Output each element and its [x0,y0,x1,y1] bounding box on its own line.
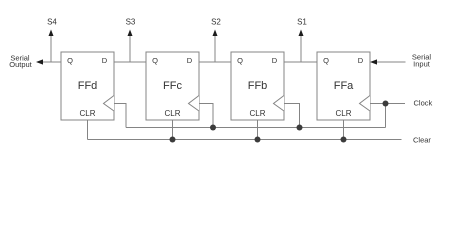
svg-text:Q: Q [152,56,158,65]
svg-text:FFb: FFb [248,80,268,92]
junction clock at FFa [383,101,389,107]
svg-text:D: D [272,56,278,65]
svg-text:S1: S1 [297,17,307,26]
junction clear bus FFc [170,137,176,143]
junction clock bus FFb [297,125,303,131]
svg-text:Output: Output [9,60,32,69]
svg-text:Input: Input [413,59,431,68]
wire serial output from Q of FFd [42,61,61,63]
wire CLR pin FFb [257,120,259,140]
node S3 arrowhead [128,30,133,37]
flip-flop FFc [146,52,199,120]
node S3 tap wire [129,35,131,62]
wire clock stub FFc [199,104,213,128]
wire clear bus [88,139,402,141]
svg-text:Q: Q [323,56,329,65]
svg-text:CLR: CLR [249,109,265,118]
svg-text:FFc: FFc [163,80,182,92]
svg-text:S3: S3 [126,17,136,26]
svg-text:Clock: Clock [414,99,433,108]
wire serial input to D(FFa) [376,61,406,63]
svg-text:CLR: CLR [335,109,351,118]
clock input triangle FFa [360,96,371,112]
svg-text:FFd: FFd [78,80,98,92]
svg-text:D: D [187,56,193,65]
wire D(FFc) to Q(FFb) [199,61,231,63]
clock input triangle FFd [104,96,115,112]
junction clear bus FFa [341,137,347,143]
svg-text:S2: S2 [211,17,221,26]
flip-flop FFa [317,52,370,120]
wire clock bus [126,127,386,129]
svg-text:D: D [102,56,108,65]
wire clock stub FFd [114,104,126,128]
svg-text:Q: Q [67,56,73,65]
label Serial Input [412,52,432,68]
junction clock bus FFc [210,125,216,131]
wire clock lead [386,103,406,105]
label Serial Output [9,53,32,69]
svg-text:FFa: FFa [334,80,354,92]
flip-flop FFd [61,52,114,120]
wire clock stub FFa [370,104,386,128]
node S4 arrowhead [49,30,54,37]
junction clear bus FFb [255,137,261,143]
clock input triangle FFb [274,96,285,112]
serial input arrowhead [370,59,377,64]
svg-text:S4: S4 [47,17,57,26]
wire CLR pin FFa [343,120,345,140]
wire CLR pin FFd [87,120,89,140]
wire clock stub FFb [284,104,300,128]
svg-text:Q: Q [237,56,243,65]
wire D(FFb) to Q(FFa) [284,61,317,63]
node S1 arrowhead [299,30,304,37]
node S4 tap wire [50,35,52,62]
wire D(FFd) to Q(FFc) [114,61,146,63]
node S1 tap wire [300,35,302,62]
svg-text:Clear: Clear [413,135,431,144]
node S2 arrowhead [213,30,218,37]
svg-text:D: D [358,56,364,65]
node S2 tap wire [214,35,216,62]
flip-flop FFb [231,52,284,120]
clock input triangle FFc [189,96,200,112]
svg-text:CLR: CLR [79,109,95,118]
serial output arrowhead [36,59,43,64]
wire CLR pin FFc [172,120,174,140]
svg-text:CLR: CLR [164,109,180,118]
